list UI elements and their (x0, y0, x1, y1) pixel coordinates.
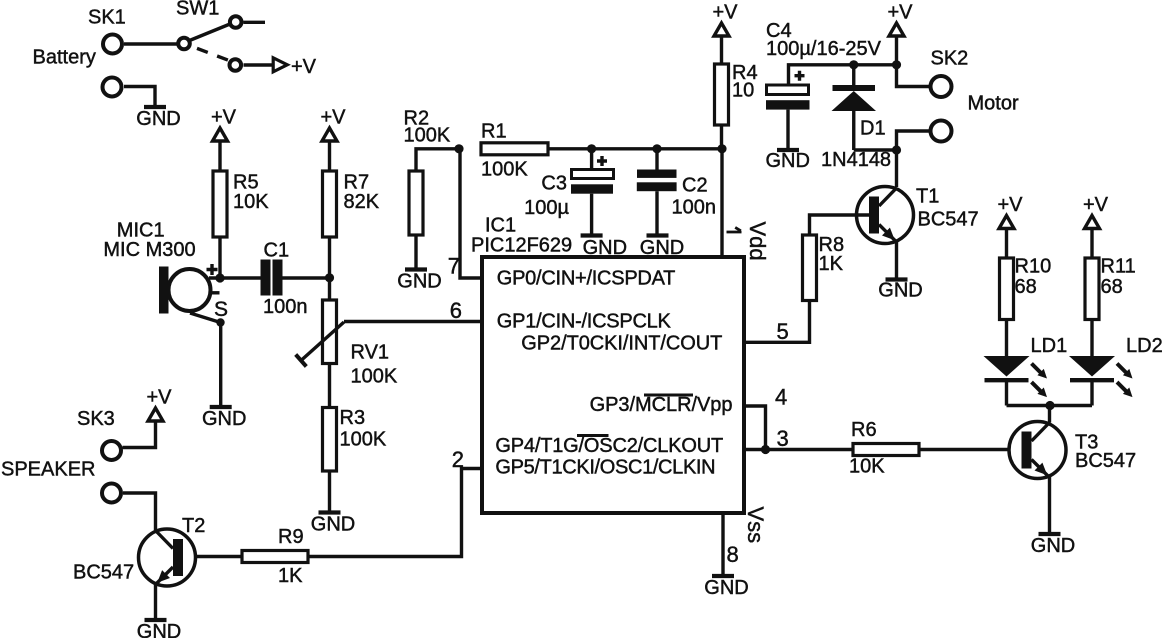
svg-text:1N4148: 1N4148 (821, 149, 891, 171)
svg-text:D1: D1 (860, 118, 886, 140)
svg-text:GP2/T0CKI/INT/COUT: GP2/T0CKI/INT/COUT (521, 333, 722, 355)
svg-text:SK2: SK2 (931, 48, 969, 70)
svg-text:100K: 100K (340, 429, 387, 451)
svg-text:Vss: Vss (743, 507, 768, 544)
svg-text:LD1: LD1 (1031, 335, 1068, 357)
svg-text:C2: C2 (682, 175, 708, 197)
svg-text:2: 2 (452, 447, 464, 472)
svg-text:MIC M300: MIC M300 (103, 239, 195, 261)
svg-text:SK3: SK3 (77, 408, 115, 430)
svg-text:R6: R6 (851, 419, 877, 441)
svg-text:SPEAKER: SPEAKER (1, 459, 95, 481)
svg-text:100K: 100K (404, 125, 451, 147)
svg-text:LD2: LD2 (1126, 335, 1162, 357)
svg-text:10K: 10K (233, 191, 269, 213)
svg-text:PIC12F629: PIC12F629 (471, 235, 572, 257)
svg-text:68: 68 (1015, 276, 1037, 298)
svg-text:Motor: Motor (968, 93, 1019, 115)
svg-text:7: 7 (448, 254, 460, 279)
svg-text:Vdd: Vdd (745, 222, 770, 261)
svg-text:GND: GND (1031, 535, 1075, 557)
svg-text:R11: R11 (1101, 256, 1136, 278)
svg-text:T2: T2 (182, 515, 205, 537)
svg-text:GP4/T1G/OSC2/CLKOUT: GP4/T1G/OSC2/CLKOUT (495, 435, 723, 457)
svg-text:SK1: SK1 (88, 7, 126, 29)
svg-text:100n: 100n (672, 197, 717, 219)
svg-text:100K: 100K (351, 366, 398, 388)
svg-text:100µ: 100µ (524, 197, 569, 219)
svg-text:GP1/CIN-/ICSPCLK: GP1/CIN-/ICSPCLK (497, 311, 672, 333)
svg-text:+V: +V (291, 56, 317, 78)
svg-text:S: S (214, 298, 228, 321)
svg-text:6: 6 (450, 298, 462, 323)
svg-text:100K: 100K (481, 159, 528, 181)
svg-text:100n: 100n (263, 296, 308, 318)
svg-text:3: 3 (777, 426, 789, 451)
svg-text:C1: C1 (264, 240, 290, 262)
svg-text:BC547: BC547 (918, 209, 979, 231)
svg-text:R10: R10 (1015, 256, 1052, 278)
svg-text:GP3/MCLR/Vpp: GP3/MCLR/Vpp (590, 394, 733, 416)
svg-text:1K: 1K (819, 253, 844, 275)
svg-text:BC547: BC547 (1075, 450, 1136, 472)
svg-text:8: 8 (727, 542, 739, 567)
svg-text:5: 5 (777, 319, 789, 344)
svg-text:SW1: SW1 (176, 0, 219, 20)
svg-text:RV1: RV1 (351, 342, 390, 364)
svg-text:4: 4 (775, 385, 787, 410)
svg-text:Battery: Battery (33, 47, 96, 69)
svg-text:10K: 10K (849, 456, 885, 478)
svg-text:GND: GND (765, 150, 809, 172)
svg-text:100µ/16-25V: 100µ/16-25V (766, 38, 882, 60)
svg-text:T1: T1 (916, 186, 939, 208)
svg-text:R3: R3 (340, 407, 366, 429)
svg-text:R1: R1 (481, 121, 507, 143)
svg-text:GP0/CIN+/ICSPDAT: GP0/CIN+/ICSPDAT (497, 267, 676, 289)
svg-text:10: 10 (732, 80, 754, 102)
svg-text:GND: GND (878, 280, 922, 302)
svg-text:68: 68 (1101, 276, 1123, 298)
svg-text:GP5/T1CKI/OSC1/CLKIN: GP5/T1CKI/OSC1/CLKIN (495, 457, 715, 479)
svg-text:IC1: IC1 (485, 215, 516, 237)
svg-text:1K: 1K (278, 565, 303, 587)
svg-text:C3: C3 (541, 173, 567, 195)
svg-text:R9: R9 (278, 526, 304, 548)
svg-text:BC547: BC547 (73, 562, 134, 584)
svg-text:82K: 82K (344, 191, 380, 213)
